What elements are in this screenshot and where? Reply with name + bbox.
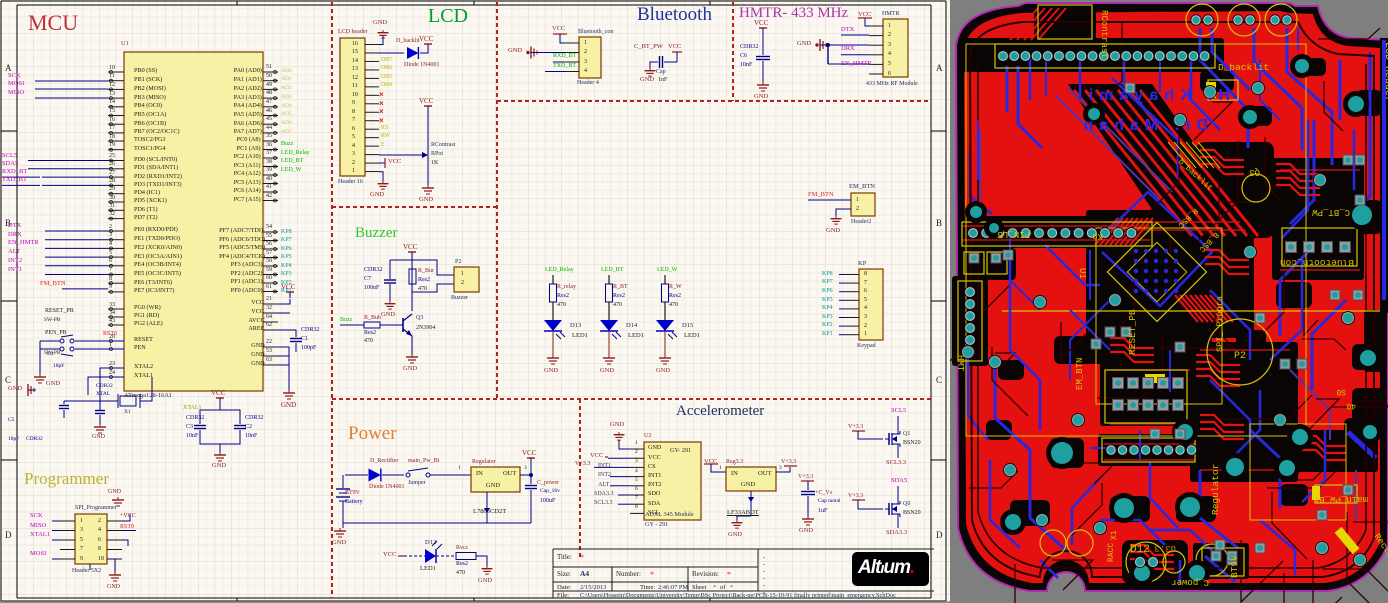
svg-text:BT9V: BT9V bbox=[1229, 555, 1240, 578]
svg-text:Bluetooth_con: Bluetooth_con bbox=[1280, 257, 1354, 268]
svg-text:main_Pw_Bt: main_Pw_Bt bbox=[1314, 494, 1368, 504]
svg-text:RESET_PB: RESET_PB bbox=[1127, 309, 1138, 355]
svg-text:Regulator: Regulator bbox=[1210, 464, 1221, 515]
svg-text:D12: D12 bbox=[1130, 544, 1150, 556]
svg-text:PIN_LB: PIN_LB bbox=[997, 229, 1030, 239]
svg-text:C_BT_PW: C_BT_PW bbox=[1312, 207, 1350, 217]
svg-text:D_backlit: D_backlit bbox=[1218, 62, 1269, 73]
svg-text:HMT: HMT bbox=[955, 355, 965, 372]
svg-text:d3.3: d3.3 bbox=[1154, 543, 1176, 553]
svg-text:EM_BTN: EM_BTN bbox=[1075, 358, 1085, 390]
svg-text:U1: U1 bbox=[1077, 268, 1087, 279]
svg-text:P2: P2 bbox=[1234, 351, 1246, 362]
svg-text:X1: X1 bbox=[1110, 530, 1119, 540]
svg-text:C_power: C_power bbox=[1171, 577, 1209, 587]
svg-text:40: 40 bbox=[1346, 401, 1356, 410]
svg-text:RACC: RACC bbox=[1107, 543, 1116, 562]
svg-text:Q3: Q3 bbox=[1249, 167, 1260, 177]
svg-text:LCD Header: LCD Header bbox=[1382, 42, 1388, 102]
svg-text:Dr. Mahan: Dr. Mahan bbox=[1078, 117, 1208, 134]
svg-text:Kp: Kp bbox=[1092, 231, 1103, 241]
svg-text:S0: S0 bbox=[1336, 387, 1346, 396]
svg-text:SPI_ Progra: SPI_ Progra bbox=[1215, 296, 1225, 352]
svg-text:RContrast: RContrast bbox=[1099, 10, 1109, 59]
svg-text:H. Khayami: H. Khayami bbox=[1083, 87, 1230, 104]
